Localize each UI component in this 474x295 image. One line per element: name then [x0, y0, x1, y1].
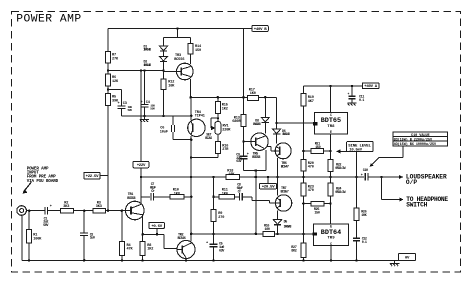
capacitor C9 — [236, 153, 249, 170]
darlington U TR9 BDT64 — [312, 224, 348, 246]
resistor R27 — [291, 234, 306, 261]
svg-text:0R33/2W: 0R33/2W — [335, 190, 345, 194]
svg-text:50V: 50V — [150, 108, 155, 111]
svg-text:TR8: TR8 — [327, 125, 335, 129]
darlington U TR8 BDT65 — [313, 113, 348, 134]
wire bias node y71 — [108, 69, 165, 72]
transistor TR6 — [275, 143, 291, 170]
resistor R16b — [263, 225, 275, 237]
svg-text:150: 150 — [314, 212, 319, 216]
svg-text:BC556: BC556 — [174, 58, 184, 62]
svg-text:BC546: BC546 — [178, 237, 186, 241]
capacitor C11 — [348, 86, 365, 106]
wire +40V top rail — [108, 27, 244, 30]
svg-text:27R: 27R — [222, 148, 229, 152]
wire +40V B column — [243, 29, 245, 115]
transistor TR5 — [251, 133, 268, 160]
wire output rail left — [140, 176, 226, 179]
svg-text:10uF: 10uF — [160, 130, 168, 134]
transistor TR2 — [177, 233, 195, 260]
wire loudspeaker arrow — [382, 175, 404, 179]
svg-text:+: + — [118, 102, 120, 106]
svg-text:1K2: 1K2 — [222, 108, 228, 112]
wire BDT64 bottom pin — [330, 246, 332, 261]
diode D8 — [253, 97, 270, 133]
resistor R23 — [301, 183, 314, 234]
svg-text:100: 100 — [265, 228, 270, 232]
resistor R8 — [140, 241, 153, 260]
transistor TR1 — [126, 193, 145, 220]
resistor R13 — [232, 115, 246, 127]
wire connector shield drop — [21, 215, 23, 260]
wire TR1 collector to TR2 base — [143, 234, 177, 248]
svg-text:VIA PSU BOARD: VIA PSU BOARD — [27, 180, 59, 184]
capacitor C1 — [43, 205, 61, 228]
svg-text:BC558: BC558 — [127, 197, 135, 201]
transistor TR7 — [275, 177, 291, 211]
svg-text:150: 150 — [315, 146, 320, 150]
resistor R12 — [161, 79, 175, 90]
svg-text:10K: 10K — [168, 84, 175, 88]
node +40V A label — [362, 83, 379, 89]
capacitor C10 — [361, 169, 382, 181]
resistor R10 — [153, 189, 192, 200]
wire TR3 base — [164, 70, 177, 72]
svg-text:270: 270 — [218, 216, 224, 220]
svg-text:100K: 100K — [33, 237, 42, 241]
resistor R26 — [354, 177, 368, 221]
node output junction — [380, 176, 383, 179]
resistor R2 — [61, 201, 74, 213]
svg-text:3K3: 3K3 — [96, 205, 102, 209]
svg-text:C3: C3 — [123, 102, 127, 106]
svg-text:27K: 27K — [112, 57, 119, 61]
svg-text:+: + — [206, 242, 208, 246]
resistor R22 — [328, 160, 346, 183]
svg-text:SWITCH: SWITCH — [406, 202, 427, 209]
node POWER AMP INPUT text — [27, 167, 59, 184]
wire R6/R5 tap to C3 — [108, 90, 122, 106]
svg-text:C: C — [330, 242, 332, 246]
svg-text:680R: 680R — [232, 120, 241, 124]
svg-text:1u0: 1u0 — [90, 237, 95, 241]
wire riser to D1/R14 sub-rail — [164, 29, 191, 38]
resistor R4 — [119, 211, 133, 261]
node +40V B label — [244, 26, 269, 32]
capacitor C2 — [80, 211, 95, 261]
wire input to C1 — [26, 209, 44, 212]
wire to BDT64 base pin — [275, 233, 314, 236]
svg-text:+20.5V: +20.5V — [262, 186, 276, 190]
resistor R3 — [93, 201, 106, 213]
preset RV1 — [205, 114, 231, 141]
wire TR3 collector rail y97 — [189, 96, 276, 99]
wire R3 to TR1 base — [106, 209, 127, 212]
capacitor C6 bootstrap loop — [160, 116, 193, 141]
title POWER AMP — [14, 12, 84, 25]
svg-text:+: + — [50, 205, 52, 209]
resistor R25 — [303, 201, 330, 215]
node +20.5V label — [260, 177, 277, 190]
svg-text:12K: 12K — [112, 80, 119, 84]
wire TR1 collector column — [141, 216, 144, 242]
wire TR4 emitter column down — [190, 158, 193, 242]
svg-text:4Ω(15W) BX 10000u/25V: 4Ω(15W) BX 10000u/25V — [394, 142, 437, 147]
svg-text:O/P: O/P — [406, 179, 417, 186]
resistor R14 — [188, 38, 202, 55]
wire D2 to node — [163, 61, 165, 79]
wire SINE box stub — [355, 152, 357, 178]
svg-text:1N4148: 1N4148 — [143, 63, 151, 67]
capacitor C5 — [206, 222, 225, 261]
wire C8 to TR7 base — [242, 197, 275, 203]
svg-text:TIP41: TIP41 — [195, 115, 205, 119]
svg-text:470: 470 — [308, 166, 314, 170]
wire table annotation arrow to C10 — [369, 146, 402, 167]
svg-text:+: + — [361, 174, 363, 178]
wire output rail right — [240, 176, 365, 179]
svg-text:BC557: BC557 — [281, 190, 289, 194]
capacitor C7 — [141, 183, 156, 201]
svg-text:0.1: 0.1 — [359, 99, 364, 103]
resistor R7 — [105, 29, 119, 64]
transistor TR3 — [174, 54, 193, 97]
svg-text:Cr: Cr — [238, 190, 242, 194]
resistor R11 — [214, 189, 235, 200]
svg-text:50V: 50V — [128, 109, 133, 112]
svg-text:4K7: 4K7 — [308, 100, 314, 104]
wire R13 to TR5 base / C9 — [242, 127, 251, 156]
wire long vertical to TR2 collector node — [255, 171, 257, 234]
wire input annotation arrow — [22, 182, 31, 194]
wire R5 bottom to input node — [107, 105, 109, 210]
wire BDT65 emitter — [329, 134, 332, 160]
wire TR2/BDT64 base rail y234 — [191, 233, 263, 236]
svg-text:BIAS: BIAS — [205, 137, 212, 141]
svg-text:+22V: +22V — [137, 164, 146, 168]
svg-text:8K2: 8K2 — [291, 250, 296, 254]
svg-text:BC558: BC558 — [252, 156, 260, 160]
node 0V label — [399, 254, 416, 261]
svg-text:3K3: 3K3 — [63, 205, 69, 209]
svg-text:1N4148: 1N4148 — [253, 122, 261, 126]
svg-text:1K8: 1K8 — [174, 192, 180, 196]
resistor R5 — [105, 86, 119, 106]
svg-text:E: E — [330, 130, 332, 134]
wire TR5/TR6 emitter node — [244, 150, 267, 172]
svg-text:+: + — [247, 153, 249, 157]
node LOUDSPEAKER O/P text — [406, 173, 447, 186]
wire 0V ground rail — [22, 259, 398, 262]
svg-text:8Ω(15W) B 2200u/25V: 8Ω(15W) B 2200u/25V — [394, 138, 433, 143]
svg-text:+: + — [348, 92, 350, 96]
node +22.5V label — [84, 172, 108, 179]
resistor R9 — [211, 197, 224, 222]
wire BDT65 collector pin — [330, 86, 332, 113]
resistor R17 — [248, 88, 259, 100]
resistor R6 — [105, 63, 119, 86]
resistor R16 — [215, 134, 229, 153]
node SINE LEVEL label — [336, 142, 373, 154]
svg-text:1K0: 1K0 — [250, 92, 256, 96]
svg-text:1N4148: 1N4148 — [143, 48, 151, 52]
svg-text:0.1: 0.1 — [362, 241, 367, 245]
capacitor C8 — [235, 184, 243, 201]
ground 0V end — [390, 260, 399, 266]
diode D1 — [143, 38, 167, 52]
diode D5 — [273, 211, 291, 236]
wire R2-R3 — [73, 209, 93, 212]
svg-text:+40V B: +40V B — [254, 28, 268, 32]
wire ground/bootstrap rail y116 — [122, 114, 193, 117]
svg-text:1N4148: 1N4148 — [284, 225, 292, 229]
wire R12 to ground rail — [163, 90, 165, 117]
svg-text:TR9: TR9 — [327, 236, 335, 240]
svg-text:18K: 18K — [228, 173, 235, 177]
svg-text:+22.5V: +22.5V — [86, 175, 100, 179]
svg-text:+40V A: +40V A — [364, 85, 378, 89]
wire TR6 emitter to rail — [276, 158, 279, 178]
svg-text:470: 470 — [308, 189, 314, 193]
svg-text:47K: 47K — [127, 248, 134, 252]
svg-text:+0.6V: +0.6V — [151, 225, 162, 229]
svg-text:C10: C10 — [363, 169, 368, 173]
node C10 VALUE table — [393, 132, 448, 147]
svg-text:220R: 220R — [222, 129, 231, 133]
svg-text:POWER AMP: POWER AMP — [16, 14, 82, 26]
node input connector — [17, 206, 27, 216]
wire R19 column down — [302, 106, 305, 160]
wire TR1 emitter column / +22V label — [133, 71, 149, 204]
diode D2 — [143, 51, 167, 67]
svg-text:0R33/2W: 0R33/2W — [335, 166, 345, 170]
svg-text:1K2: 1K2 — [147, 248, 153, 252]
resistor R21 — [303, 142, 330, 153]
resistor R1 — [26, 211, 42, 261]
wire TR5 collector to TR6 base — [267, 146, 276, 151]
capacitor C4 — [141, 71, 156, 116]
svg-text:C10 VALUE: C10 VALUE — [411, 134, 430, 138]
resistor R18 — [226, 170, 240, 180]
wire BDT65 base rail — [277, 122, 313, 124]
resistor R20 — [301, 160, 314, 183]
resistor R19 — [301, 86, 314, 106]
wire headphone branch — [382, 177, 404, 202]
svg-text:150: 150 — [195, 49, 201, 53]
diode D6 — [273, 97, 290, 143]
svg-text:BC547: BC547 — [281, 165, 289, 169]
svg-text:Cr: Cr — [151, 190, 155, 194]
transistor TR4 — [188, 97, 205, 157]
wire R11 riser — [212, 177, 215, 198]
wire +40V A rail — [303, 85, 362, 88]
capacitor C12 — [353, 221, 367, 261]
ground — [140, 116, 149, 122]
node +0.6V label — [149, 222, 164, 235]
svg-text:1K0: 1K0 — [222, 192, 228, 196]
svg-text:1N4148: 1N4148 — [282, 132, 290, 136]
node TO HEADPHONE SWITCH text — [406, 196, 448, 209]
resistor R15 — [215, 97, 228, 113]
wire R16 to TR4 emitter — [190, 153, 218, 158]
resistor R24 — [328, 183, 346, 224]
capacitor C3 — [118, 102, 133, 116]
